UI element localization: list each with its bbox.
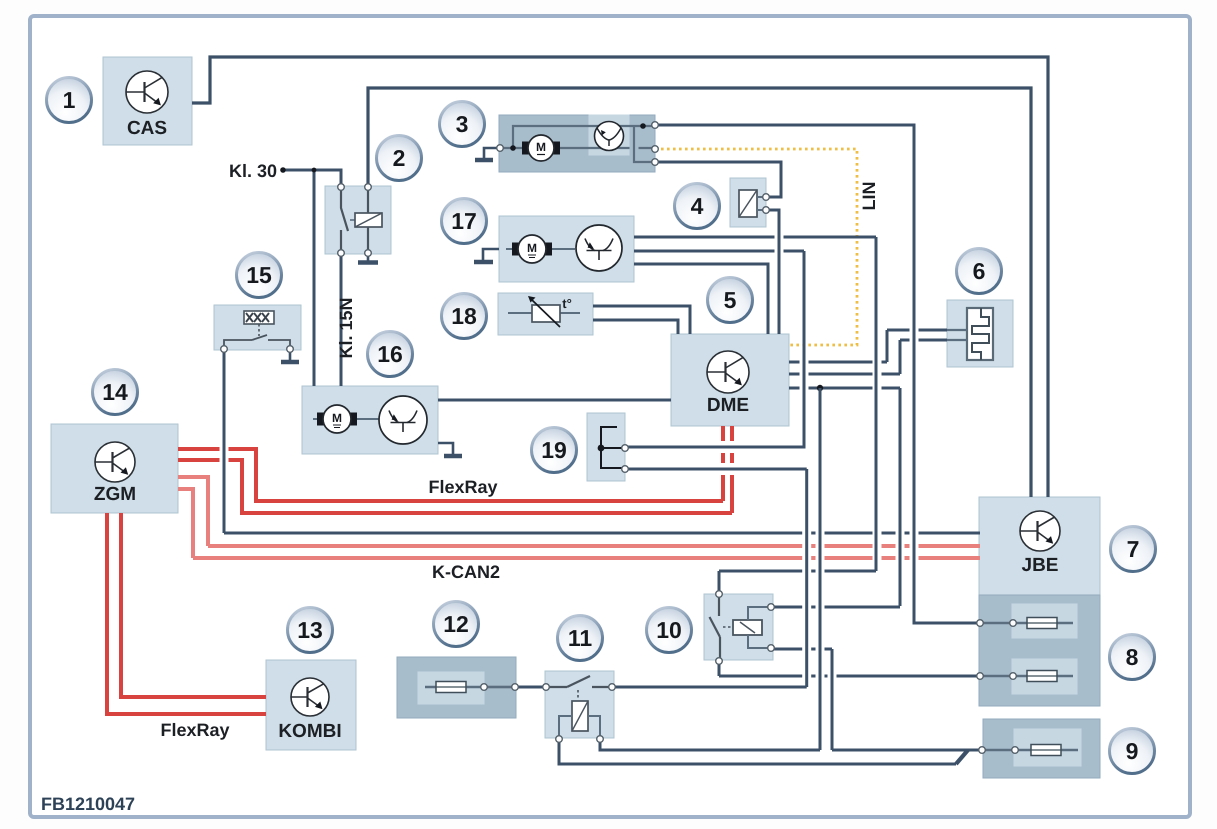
svg-text:15: 15: [246, 262, 272, 288]
callout number 5: [708, 278, 753, 323]
svg-text:11: 11: [568, 625, 593, 651]
terminal K2 br: [365, 250, 372, 257]
svg-text:9: 9: [1126, 738, 1139, 764]
svg-text:4: 4: [691, 193, 704, 219]
fan symbol: [595, 122, 624, 151]
callout number 15: [237, 253, 282, 298]
callout number 9: [1110, 729, 1155, 774]
control unit ZGM symbol: [95, 442, 135, 482]
control unit CAS symbol: [126, 71, 168, 113]
switch unit 15 blade: [224, 340, 252, 346]
callout number 1: [47, 78, 92, 123]
control unit DME symbol: [707, 351, 749, 393]
terminal K11 bl: [556, 736, 563, 743]
sensor 19 symbol: [601, 427, 622, 468]
svg-text:19: 19: [541, 437, 567, 463]
FlexRay wire ZGM-DME 2: [178, 460, 732, 513]
wire K11 coil right lead: [600, 739, 820, 750]
motor unit 16 leads: [313, 418, 322, 420]
motor unit 17 leads: [506, 248, 517, 250]
fuse 12 inner box: [418, 672, 484, 704]
FlexRay wire ZGM-DME 1: [178, 449, 723, 501]
relay K11 coil: [572, 701, 588, 731]
control unit KOMBI symbol: [291, 678, 329, 716]
wire DME to heater 6 lower: [789, 373, 900, 376]
output stage 17: [576, 225, 622, 271]
terminal K10 top: [716, 591, 723, 598]
K-CAN2 wire ZGM-JBE 2: [178, 489, 193, 558]
fuse 12 symbol: [436, 682, 466, 693]
terminal fuse12 b: [512, 684, 519, 691]
wire K11 left-bottom lead: [559, 739, 956, 764]
K-CAN2 bus 2: [193, 556, 980, 560]
wire down to K11 switch: [805, 469, 808, 687]
relay K10 coil: [733, 620, 762, 635]
ground relay K2: [367, 253, 370, 261]
flap actuator leads: [757, 196, 766, 198]
wire fuse 9 lead: [982, 749, 1078, 751]
wire to JBE fuse row 2: [719, 675, 980, 678]
fuse carrier 8 box: [979, 595, 1100, 706]
wire bus to JBE: [224, 532, 980, 535]
svg-text:CAS: CAS: [127, 118, 167, 139]
wire fuse 9 feed: [832, 749, 982, 752]
control unit DME box: [671, 334, 789, 426]
wire fuse 12 lead: [425, 686, 515, 688]
relay K2 coil leads: [367, 190, 369, 213]
terminal fan module r3: [652, 159, 659, 166]
wire fan module to JBE fuse row 1: [655, 125, 980, 623]
svg-text:18: 18: [451, 303, 477, 329]
wire fuse 12 to K11: [484, 686, 515, 688]
switch K11 blade: [549, 686, 567, 688]
terminal F3 b: [1012, 747, 1019, 754]
svg-text:Kl. 15N: Kl. 15N: [336, 297, 356, 358]
motor M 17: [512, 243, 519, 256]
FlexRay wire DME stub 2: [730, 426, 734, 513]
wire Kl.30 feed: [283, 170, 341, 187]
callout number 16: [368, 332, 413, 377]
relay K11 coil leads: [559, 716, 572, 737]
LIN bus wire (dotted): [655, 149, 857, 345]
K-CAN2 wire ZGM-JBE 1: [178, 477, 208, 546]
fan inner box: [589, 115, 629, 155]
svg-text:ZGM: ZGM: [94, 484, 136, 505]
wire JBE fuse row2 lead: [980, 675, 1073, 677]
terminal fuse12 a: [481, 684, 488, 691]
sensor 19 box: [587, 413, 625, 481]
switch unit 15 symbol: [244, 311, 274, 324]
ground fan module: [484, 148, 497, 158]
switch/relay K11 box: [545, 671, 614, 738]
motor unit 16 box: [302, 386, 438, 454]
svg-text:2: 2: [393, 145, 406, 171]
relay K10 coil leads: [748, 607, 771, 620]
FlexRay wire ZGM-KOMBI 1: [121, 513, 266, 697]
terminal K10 bottom: [716, 658, 723, 665]
svg-text:FB1210047: FB1210047: [41, 794, 135, 814]
wire net to relay K10 top terminal: [719, 570, 876, 573]
wire Kl.30 down to unit 16: [313, 170, 316, 386]
svg-text:K-CAN2: K-CAN2: [432, 562, 500, 582]
callout number 13: [288, 608, 333, 653]
terminal K11 br: [597, 736, 604, 743]
ground unit 17: [483, 249, 499, 260]
terminal 19 bottom: [622, 466, 629, 473]
wire fan module to flap actuator 4: [655, 162, 781, 197]
svg-text:t°: t°: [562, 296, 572, 311]
svg-text:10: 10: [656, 617, 682, 643]
wire unit 17 bottom to DME: [634, 264, 768, 334]
wire unit 16 to DME: [438, 399, 671, 402]
fuse 9 inner box: [1014, 729, 1081, 766]
terminal K2 tr: [365, 184, 372, 191]
svg-text:16: 16: [377, 341, 403, 367]
wire Kl.15N relay K2 to unit 16: [340, 254, 343, 386]
ground unit 16: [438, 443, 453, 454]
terminal K10 rt: [768, 604, 775, 611]
callout number 19: [532, 428, 577, 473]
fuse 8b inner box: [1012, 659, 1077, 694]
terminal K2 bl: [338, 250, 345, 257]
terminal fan module left: [497, 145, 504, 152]
wire down to fuse 9 feed: [831, 649, 834, 750]
callout number 12: [434, 602, 479, 647]
wire K10 top terminal lead: [718, 571, 721, 594]
control unit ZGM box: [51, 424, 178, 513]
motor unit 17 box: [499, 216, 634, 282]
svg-text:8: 8: [1126, 644, 1139, 670]
terminal K2 tl: [338, 184, 345, 191]
terminal K11 left: [543, 684, 550, 691]
wire DME line3: [789, 387, 900, 390]
fuse 9 box: [983, 719, 1100, 778]
svg-text:17: 17: [451, 208, 477, 234]
heater element symbol: [967, 308, 993, 360]
terminal F1 a: [977, 620, 984, 627]
callout number 14: [93, 370, 138, 415]
fuse F3 symbol: [1031, 745, 1061, 756]
motor M fan: [522, 142, 529, 155]
component 6 box (heater element): [947, 300, 1013, 367]
svg-text:FlexRay: FlexRay: [160, 720, 229, 740]
terminal K10 rb: [768, 645, 775, 652]
terminal F1 b: [1010, 620, 1017, 627]
callout number 10: [647, 608, 692, 653]
wire relay K2 to JBE: [368, 88, 1031, 497]
svg-text:1: 1: [63, 87, 76, 113]
wire sensor 18 top to DME: [593, 306, 690, 334]
svg-text:M: M: [536, 140, 546, 154]
svg-text:M: M: [527, 241, 537, 255]
temperature sensor 18 box: [498, 293, 593, 335]
terminal fan module r2: [652, 146, 659, 153]
junction fan module a: [510, 145, 516, 151]
control unit JBE symbol: [1020, 511, 1060, 551]
callout number 2: [377, 136, 422, 181]
terminal 15 right: [287, 346, 294, 353]
control unit CAS box: [103, 57, 192, 145]
FlexRay wire DME stub 1: [721, 426, 725, 501]
svg-text:14: 14: [102, 379, 128, 405]
wire unit 15 to JBE (bus): [223, 349, 226, 533]
callout number 11: [558, 616, 603, 661]
svg-text:12: 12: [443, 611, 469, 637]
svg-text:7: 7: [1127, 536, 1140, 562]
svg-text:LIN: LIN: [859, 182, 879, 211]
terminal F2 b: [1010, 673, 1017, 680]
wire branch down to K11 coil: [819, 388, 822, 750]
wire step up to heater 6 upper: [886, 330, 889, 362]
callout number 8: [1110, 635, 1155, 680]
wire heater 6 lower lead: [900, 339, 947, 342]
fan module internal wires: [503, 147, 525, 149]
ground unit 15: [289, 349, 292, 360]
svg-text:JBE: JBE: [1022, 555, 1059, 576]
callout number 6: [957, 249, 1002, 294]
svg-text:M: M: [332, 411, 342, 425]
fuse 12 box: [397, 657, 516, 718]
wire node to relay K10 top: [875, 237, 878, 571]
node Kl.30: [280, 167, 286, 173]
wire ramp to fuse 9 feed: [956, 750, 968, 764]
svg-text:13: 13: [297, 617, 323, 643]
junction DME line3 branch: [817, 385, 823, 391]
switch unit 15 box: [214, 305, 301, 350]
component 3 box (fan module): [499, 115, 655, 172]
wire heater 6 upper lead: [887, 329, 947, 332]
flap actuator symbol: [739, 190, 757, 217]
callout number 18: [442, 294, 487, 339]
wire CAS to JBE (top): [192, 57, 1048, 497]
junction fan module b: [640, 123, 646, 129]
svg-text:5: 5: [724, 287, 737, 313]
relay K2 switch: [341, 190, 348, 231]
control unit JBE box: [979, 497, 1100, 595]
temperature sensor symbol: [508, 312, 532, 314]
fuse F1 symbol: [1027, 618, 1057, 629]
terminal flap t1: [763, 194, 770, 201]
relay K10 box: [704, 594, 773, 660]
wire step up to heater 6 lower: [899, 340, 902, 374]
wire down to sensor 19 top: [625, 251, 804, 447]
wire unit 17 mid to sensor 19 top: [634, 250, 804, 253]
svg-text:DME: DME: [707, 395, 749, 416]
terminal 15 left: [221, 346, 228, 353]
wire DME line3 down to relay K10: [899, 388, 902, 606]
wire K10 bottom-left to JBE fuse row 2: [718, 661, 721, 676]
terminal F3 a: [979, 747, 986, 754]
component 4 box (flap actuator): [730, 178, 766, 227]
callout number 17: [442, 199, 487, 244]
wire sensor 18 bottom to DME: [593, 320, 678, 334]
junction sensor 19: [598, 445, 605, 452]
motor M 16: [317, 413, 324, 426]
fuse F2 symbol: [1027, 671, 1057, 682]
wire to relay K10 right top: [771, 606, 900, 609]
wire JBE fuse row1 lead: [980, 622, 1073, 624]
relay K10 switch: [718, 597, 720, 616]
FlexRay wire ZGM-KOMBI 2: [107, 513, 266, 714]
callout number 7: [1111, 527, 1156, 572]
terminal flap t2: [763, 207, 770, 214]
K-CAN2 bus 1: [208, 544, 980, 548]
callout number 4: [675, 184, 720, 229]
terminal fan module r1: [652, 122, 659, 129]
terminal F2 a: [977, 673, 984, 680]
callout number 3: [440, 102, 485, 147]
output stage 16: [379, 396, 427, 444]
terminal K11 right: [609, 684, 616, 691]
svg-text:KOMBI: KOMBI: [278, 721, 341, 742]
relay K2 box: [325, 186, 391, 254]
control unit KOMBI box: [266, 660, 356, 750]
wire DME to heater 6 upper: [789, 361, 887, 364]
wire sensor 19 bottom to K11 switch: [625, 468, 807, 471]
wire flap actuator 4 to DME: [766, 210, 779, 334]
relay K2 coil: [355, 213, 382, 227]
wire K10 bottom-right to fuse 9: [771, 648, 832, 651]
svg-text:Kl. 30: Kl. 30: [229, 161, 277, 181]
svg-text:FlexRay: FlexRay: [428, 477, 497, 497]
svg-text:6: 6: [973, 258, 986, 284]
terminal 19 top: [622, 445, 629, 452]
fuse 8a inner box: [1012, 604, 1077, 638]
svg-text:3: 3: [456, 111, 469, 137]
wire K11 switch right lead: [612, 686, 807, 689]
wire unit 17 top to node: [634, 236, 876, 239]
